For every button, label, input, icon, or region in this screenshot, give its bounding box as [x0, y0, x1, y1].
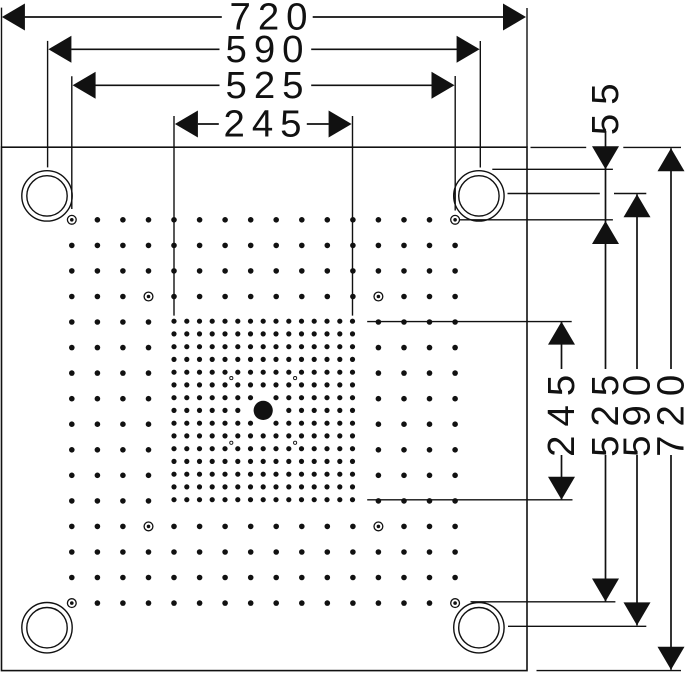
extension line from bottom ring center	[508, 625, 646, 627]
dimension 525 top: extension lines	[72, 76, 455, 211]
dimension 720 top: extension line left	[1, 8, 3, 148]
bottom-left mounting ring	[22, 603, 72, 653]
dimension 525 right	[605, 169, 607, 369]
svg-text:525: 525	[225, 64, 310, 107]
dimension 590 top: extension lines	[48, 41, 481, 168]
svg-text:245: 245	[540, 366, 583, 457]
extension line from ring center	[508, 193, 647, 195]
extension line from dense zone bottom	[367, 499, 572, 501]
svg-text:55: 55	[584, 74, 627, 135]
ring nozzles (circle-dot marks)	[67, 215, 459, 607]
dimension 720 top	[25, 16, 503, 18]
extension line from plate top edge	[531, 146, 682, 148]
dimension 590 top	[71, 48, 457, 50]
extension line from plate bottom edge	[537, 670, 682, 672]
extension line from bottom nozzle	[471, 601, 616, 603]
dimension 525 top	[95, 84, 432, 86]
dimension 55 right	[605, 131, 607, 169]
top-left mounting ring	[22, 171, 72, 221]
extension line from dense zone top	[367, 321, 572, 323]
dimension 590 right	[636, 194, 638, 369]
svg-text:720: 720	[650, 366, 689, 457]
four tiny pin nozzles	[230, 377, 297, 445]
dimension 245 top: extension lines	[174, 116, 353, 316]
dimension 245 top	[198, 123, 329, 125]
top-right mounting ring	[454, 171, 504, 221]
bottom-right mounting ring	[454, 603, 504, 653]
central dense spray dot grid	[171, 319, 355, 503]
dimension 720 right	[670, 148, 672, 369]
svg-text:245: 245	[223, 103, 308, 146]
central large nozzle dot	[254, 401, 273, 420]
extension line from corner nozzle	[460, 219, 613, 221]
shower plate outline	[2, 147, 528, 670]
outer spray nozzle dot grid	[69, 217, 458, 606]
dimension 245 right	[561, 322, 563, 369]
extension line from ring top	[492, 168, 613, 170]
dimension 720 top: extension line right	[526, 8, 528, 147]
